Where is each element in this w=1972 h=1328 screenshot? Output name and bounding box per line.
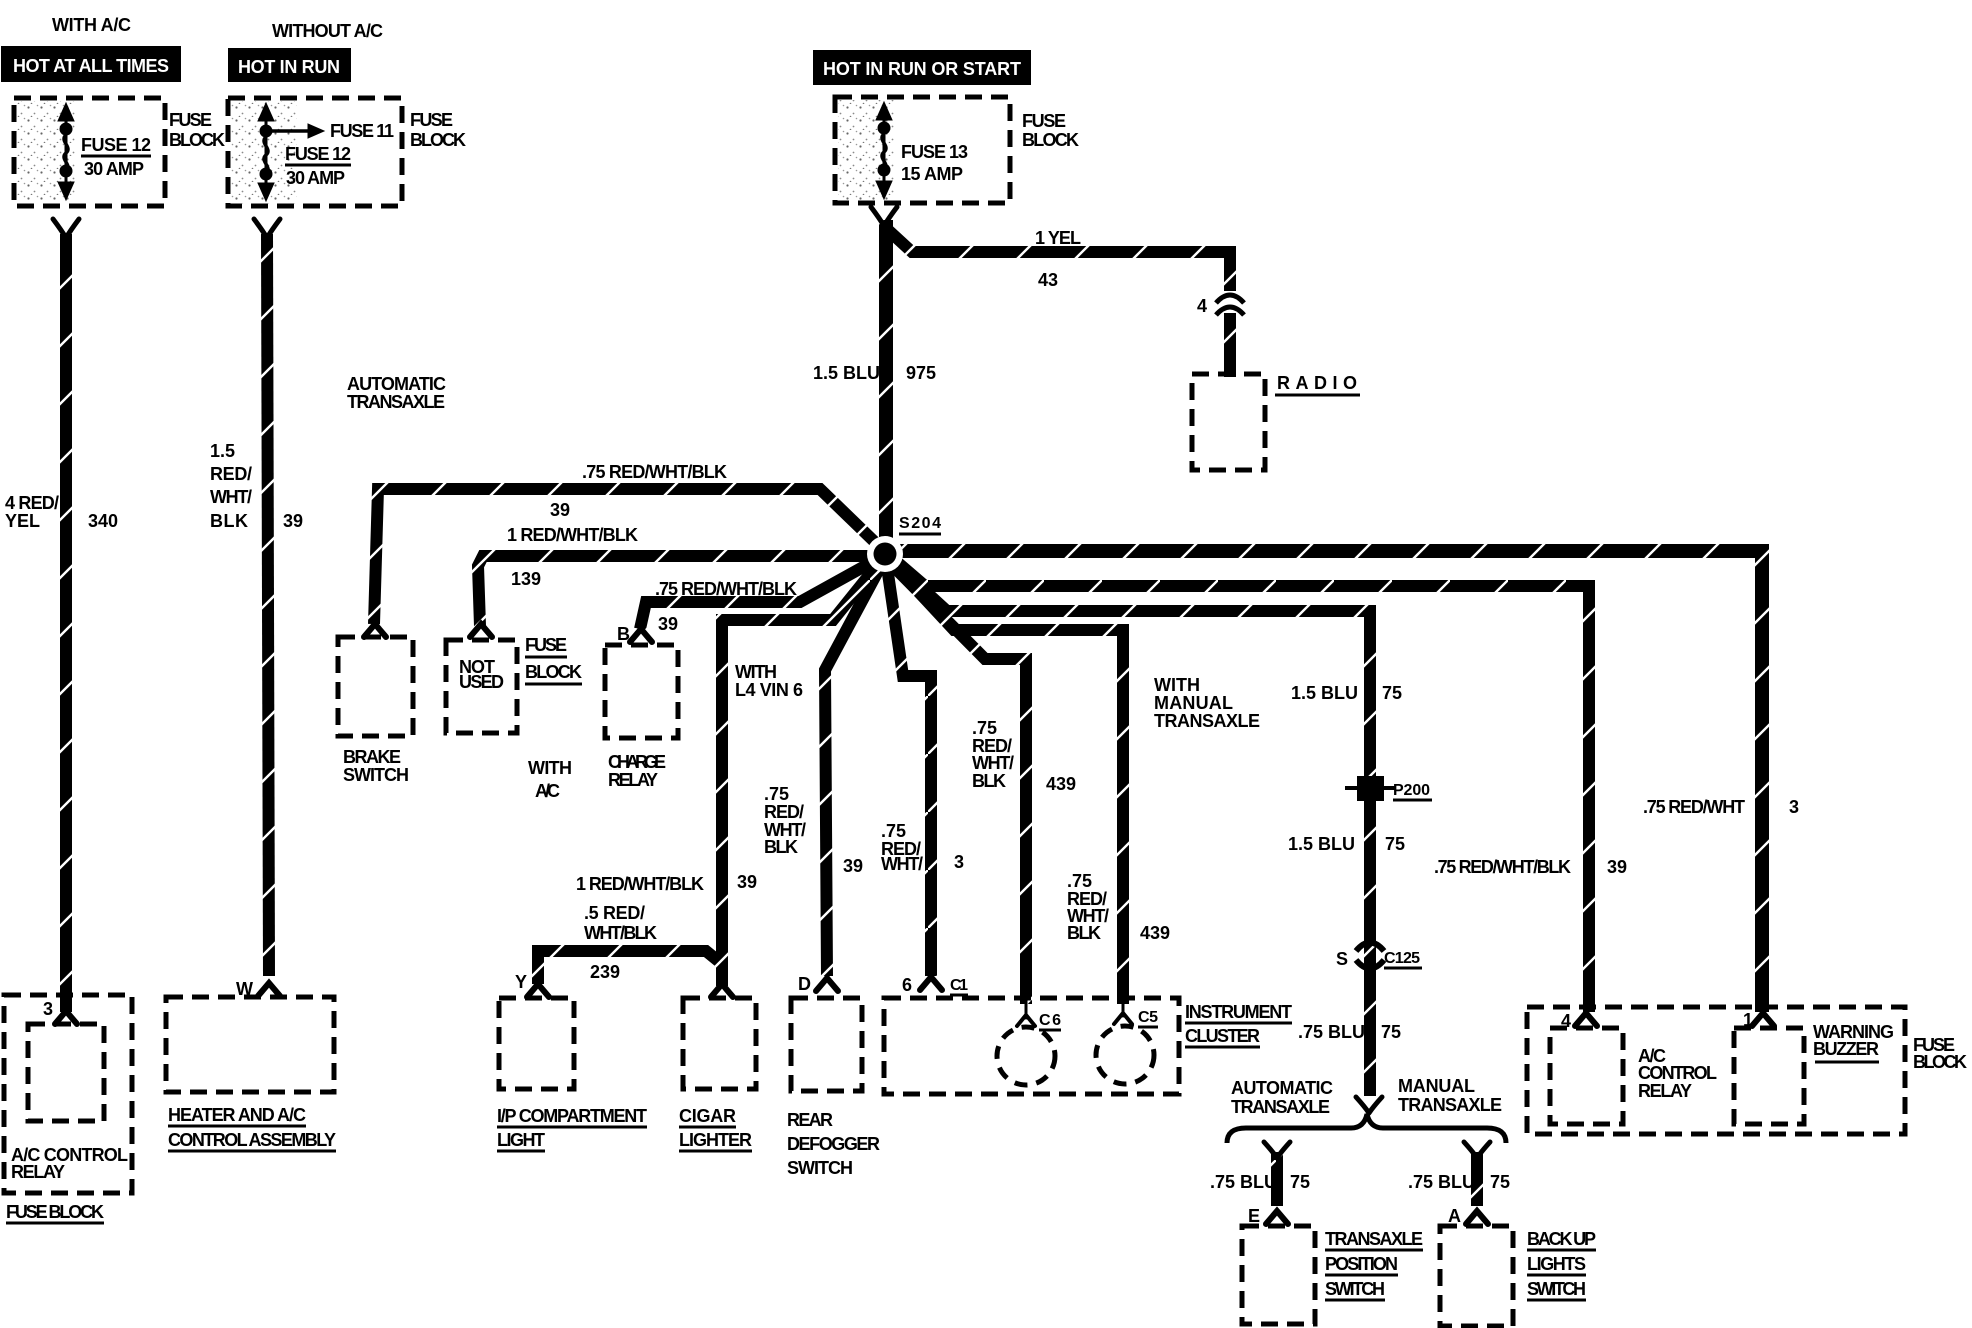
fuse block box bottom left [4, 995, 132, 1193]
svg-text:30 AMP: 30 AMP [84, 159, 144, 179]
svg-text:39: 39 [843, 856, 863, 876]
svg-text:39: 39 [658, 614, 678, 634]
inline connector 4 on radio wire [1216, 295, 1244, 315]
terminal arrow A/C control relay pin 3 [55, 1011, 77, 1024]
svg-text:USED: USED [459, 672, 504, 692]
svg-text:C6: C6 [1039, 1012, 1061, 1029]
terminal arrow brake switch [364, 624, 386, 637]
svg-text:CLUSTER: CLUSTER [1185, 1026, 1260, 1046]
header HOT IN RUN OR START [813, 50, 1031, 85]
svg-text:1: 1 [1743, 1010, 1753, 1030]
terminal arrow not used [470, 624, 492, 637]
svg-text:TRANSAXLE: TRANSAXLE [1398, 1095, 1502, 1115]
fuse block box fuse 13 [835, 97, 1010, 203]
svg-text:BLOCK: BLOCK [1022, 130, 1079, 150]
wire 1.5 RED/WHT/BLK fuse12 to heater W [267, 234, 269, 976]
terminal arrow heater pin W [258, 983, 280, 996]
svg-text:HOT IN RUN: HOT IN RUN [238, 57, 340, 77]
svg-text:RADIO: RADIO [1277, 373, 1357, 393]
fuse block box with A/C [14, 98, 165, 206]
svg-text:WHT/: WHT/ [972, 753, 1014, 773]
svg-text:.75 RED/WHT/BLK: .75 RED/WHT/BLK [582, 462, 727, 482]
svg-text:DEFOGGER: DEFOGGER [787, 1134, 880, 1154]
back up lights switch box [1440, 1226, 1513, 1326]
radio box [1192, 374, 1265, 470]
svg-text:B: B [617, 624, 630, 644]
svg-text:.75: .75 [881, 821, 906, 841]
svg-text:75: 75 [1381, 1022, 1401, 1042]
svg-text:INSTRUMENT: INSTRUMENT [1185, 1002, 1292, 1022]
wire 4 RED/YEL fuse12 to A/C control relay [60, 234, 72, 1012]
svg-text:BLK: BLK [1067, 923, 1101, 943]
terminal arrow instrument cluster pin 6 C1 [920, 977, 942, 990]
terminal arrow charge relay pin B [630, 629, 652, 642]
svg-text:39: 39 [737, 872, 757, 892]
svg-text:TRANSAXLE: TRANSAXLE [1231, 1097, 1330, 1117]
svg-text:75: 75 [1290, 1172, 1310, 1192]
svg-text:FUSE: FUSE [525, 635, 567, 655]
wire .75 RED/WHT/BLK 439 run to instrument cluster C5 [888, 559, 1123, 1004]
svg-text:RELAY: RELAY [1638, 1081, 1692, 1101]
svg-text:S: S [1336, 949, 1348, 969]
svg-text:3: 3 [43, 999, 53, 1019]
svg-text:BLOCK: BLOCK [525, 662, 582, 682]
svg-text:39: 39 [1607, 857, 1627, 877]
svg-text:WITHOUT A/C: WITHOUT A/C [272, 21, 383, 41]
svg-text:FUSE: FUSE [410, 110, 453, 130]
svg-text:15 AMP: 15 AMP [901, 164, 963, 184]
wire .75 RED/WHT top run to warning buzzer terminal 1 [891, 551, 1762, 1012]
svg-text:BRAKE: BRAKE [343, 747, 401, 767]
svg-text:Y: Y [515, 972, 527, 992]
terminal arrow rear defogger pin D [816, 978, 838, 991]
cluster arrow C5 [1122, 1000, 1125, 1016]
wire .5 RED/WHT/BLK 239 branch to I/P compartment light Y [538, 951, 722, 984]
fuse element fuse 12 with A/C [58, 103, 74, 200]
svg-text:139: 139 [511, 569, 541, 589]
wire .75 RED/WHT/BLK 39 to charge relay B [640, 556, 883, 629]
svg-text:.75: .75 [1067, 871, 1092, 891]
svg-text:TRANSAXLE: TRANSAXLE [1154, 711, 1260, 731]
svg-text:D: D [798, 974, 811, 994]
svg-text:A/C: A/C [535, 781, 560, 801]
svg-text:S204: S204 [899, 515, 941, 532]
svg-text:.75: .75 [764, 784, 789, 804]
svg-text:1.5 BLU: 1.5 BLU [1288, 834, 1355, 854]
svg-text:RELAY: RELAY [608, 770, 658, 790]
svg-text:FUSE: FUSE [169, 110, 212, 130]
svg-text:A: A [1448, 1206, 1461, 1226]
svg-text:MANUAL: MANUAL [1398, 1076, 1475, 1096]
svg-text:LIGHTER: LIGHTER [679, 1130, 752, 1150]
svg-text:WHT/BLK: WHT/BLK [584, 923, 657, 943]
wire .75 RED/WHT/BLK 39 to cigar lighter [722, 558, 883, 986]
svg-text:SWITCH: SWITCH [1527, 1279, 1586, 1299]
svg-text:BLK: BLK [764, 837, 798, 857]
svg-text:BLK: BLK [210, 511, 248, 531]
svg-text:AUTOMATIC: AUTOMATIC [1231, 1078, 1333, 1098]
svg-text:FUSE 12: FUSE 12 [285, 144, 351, 164]
svg-text:.75 BLU: .75 BLU [1210, 1172, 1277, 1192]
svg-text:BLOCK: BLOCK [410, 130, 466, 150]
svg-text:BACK UP: BACK UP [1527, 1229, 1596, 1249]
wire .75 BLU 75 manual transaxle branch [1471, 1152, 1483, 1206]
svg-text:SWITCH: SWITCH [343, 765, 409, 785]
fuse element fuse 12 without A/C with arrow to fuse 11 [258, 103, 324, 201]
wire 1.5 BLU run to P200 and C125 [888, 557, 1370, 1096]
svg-text:CONTROL ASSEMBLY: CONTROL ASSEMBLY [168, 1130, 336, 1150]
svg-text:RED/: RED/ [764, 802, 804, 822]
wire .75 RED/WHT/BLK run to A/C control relay terminal 4 [889, 555, 1589, 1012]
connector hook below fuse 13 [871, 207, 897, 226]
svg-text:.75 BLU: .75 BLU [1408, 1172, 1475, 1192]
svg-text:HOT AT ALL TIMES: HOT AT ALL TIMES [13, 56, 169, 76]
svg-text:3: 3 [1789, 797, 1799, 817]
cigar lighter box [683, 998, 756, 1089]
cluster arrow C6 [1025, 1000, 1028, 1018]
svg-text:1.5: 1.5 [210, 441, 235, 461]
terminal arrow I/P compartment light pin Y [527, 984, 549, 997]
svg-text:43: 43 [1038, 270, 1058, 290]
svg-text:C5: C5 [1138, 1009, 1158, 1026]
svg-text:BUZZER: BUZZER [1813, 1039, 1879, 1059]
wire .75 RED/WHT/BLK 39 to rear defogger switch D [825, 560, 884, 976]
svg-text:.75 RED/WHT: .75 RED/WHT [1643, 797, 1745, 817]
svg-text:439: 439 [1046, 774, 1076, 794]
svg-text:FUSE BLOCK: FUSE BLOCK [6, 1202, 104, 1222]
svg-text:SWITCH: SWITCH [1325, 1279, 1385, 1299]
svg-text:SWITCH: SWITCH [787, 1158, 853, 1178]
warning buzzer box [1734, 1028, 1804, 1124]
svg-text:CIGAR: CIGAR [679, 1106, 736, 1126]
svg-text:WITH: WITH [735, 662, 777, 682]
svg-text:POSITION: POSITION [1325, 1254, 1398, 1274]
fuse block box without A/C [228, 98, 402, 206]
instrument cluster box [884, 998, 1179, 1094]
svg-text:FUSE 13: FUSE 13 [901, 142, 968, 162]
brake switch box [338, 637, 413, 736]
svg-text:3: 3 [954, 852, 964, 872]
svg-text:.75 RED/WHT/BLK: .75 RED/WHT/BLK [655, 579, 797, 599]
svg-text:WITH: WITH [528, 758, 572, 778]
svg-text:WITH: WITH [1154, 675, 1200, 695]
svg-text:RED/: RED/ [210, 464, 252, 484]
svg-text:4 RED/: 4 RED/ [5, 493, 59, 513]
svg-text:FUSE 11: FUSE 11 [330, 121, 394, 141]
inline connector C125 [1356, 943, 1384, 969]
connector hook below fuse 12 without A/C [254, 219, 280, 238]
wire .75 RED/WHT 3 to instrument cluster C1 terminal 6 [886, 560, 931, 976]
svg-text:75: 75 [1382, 683, 1402, 703]
fuse element fuse 13 [876, 102, 892, 199]
svg-text:E: E [1248, 1206, 1260, 1226]
svg-text:WHT/: WHT/ [210, 487, 252, 507]
svg-text:HOT IN RUN OR START: HOT IN RUN OR START [823, 59, 1021, 79]
svg-text:P200: P200 [1393, 782, 1430, 799]
brace automatic/manual transaxle [1227, 1114, 1506, 1143]
svg-text:30 AMP: 30 AMP [286, 168, 345, 188]
svg-text:.5 RED/: .5 RED/ [584, 903, 645, 923]
svg-text:1 YEL: 1 YEL [1035, 228, 1081, 248]
svg-text:.75 BLU: .75 BLU [1298, 1022, 1365, 1042]
wire .75 BLU 75 automatic transaxle branch [1271, 1152, 1283, 1206]
svg-text:WITH A/C: WITH A/C [52, 15, 131, 35]
svg-text:L4 VIN 6: L4 VIN 6 [735, 680, 803, 700]
terminal arrow cigar lighter [711, 984, 733, 997]
A/C control relay box right [1550, 1028, 1623, 1124]
wire 1 YEL below inline connector 4 to radio [1224, 313, 1236, 377]
svg-text:LIGHTS: LIGHTS [1527, 1254, 1586, 1274]
I/P compartment light box [499, 998, 574, 1089]
svg-text:MANUAL: MANUAL [1154, 693, 1233, 713]
not used box [446, 640, 517, 733]
svg-text:TRANSAXLE: TRANSAXLE [1325, 1229, 1423, 1249]
svg-text:BLOCK: BLOCK [169, 130, 225, 150]
svg-text:REAR: REAR [787, 1110, 833, 1130]
svg-text:39: 39 [550, 500, 570, 520]
fuse block box right [1527, 1007, 1905, 1134]
header HOT IN RUN [228, 48, 351, 82]
svg-text:6: 6 [902, 975, 912, 995]
terminal arrow back up lights switch pin A [1466, 1211, 1488, 1224]
inline connector P200 [1357, 776, 1384, 801]
wire .75 RED/WHT/BLK 39 to brake switch [374, 489, 882, 624]
svg-text:39: 39 [283, 511, 303, 531]
svg-text:HEATER AND A/C: HEATER AND A/C [168, 1105, 306, 1125]
terminal arrow warning buzzer pin 1 [1752, 1013, 1774, 1026]
lamp circle C6 [997, 1027, 1055, 1085]
wire 1 YEL branch to radio [887, 229, 1230, 291]
charge relay box [605, 645, 678, 738]
svg-text:AUTOMATIC: AUTOMATIC [347, 374, 446, 394]
svg-text:239: 239 [590, 962, 620, 982]
terminal arrow transaxle position switch pin E [1266, 1211, 1288, 1224]
svg-text:75: 75 [1490, 1172, 1510, 1192]
svg-text:FUSE 12: FUSE 12 [81, 135, 151, 155]
svg-text:LIGHT: LIGHT [497, 1130, 545, 1150]
svg-text:RELAY: RELAY [11, 1162, 65, 1182]
svg-text:1.5 BLU: 1.5 BLU [1291, 683, 1358, 703]
lamp circle C5 [1096, 1026, 1154, 1084]
svg-text:CHARGE: CHARGE [608, 752, 666, 772]
svg-text:C1: C1 [950, 977, 968, 994]
transaxle position switch box [1242, 1226, 1315, 1324]
svg-text:TRANSAXLE: TRANSAXLE [347, 392, 445, 412]
stipple texture in fuse block boxes [17, 101, 75, 203]
svg-text:75: 75 [1385, 834, 1405, 854]
svg-text:W: W [236, 979, 253, 999]
svg-text:WHT/: WHT/ [881, 854, 923, 874]
svg-text:.75 RED/WHT/BLK: .75 RED/WHT/BLK [1434, 857, 1571, 877]
header HOT AT ALL TIMES [1, 46, 181, 82]
svg-text:BLK: BLK [972, 771, 1006, 791]
svg-text:340: 340 [88, 511, 118, 531]
svg-text:FUSE: FUSE [1022, 111, 1066, 131]
svg-text:YEL: YEL [5, 511, 40, 531]
svg-text:I/P COMPARTMENT: I/P COMPARTMENT [497, 1106, 647, 1126]
svg-text:1 RED/WHT/BLK: 1 RED/WHT/BLK [507, 525, 638, 545]
terminal arrow A/C control relay pin 4 [1575, 1013, 1597, 1026]
heater and A/C control assembly box [166, 997, 334, 1092]
wire .75 RED/WHT/BLK 439 run to instrument cluster C6 [887, 560, 1026, 1004]
svg-text:1 RED/WHT/BLK: 1 RED/WHT/BLK [576, 874, 704, 894]
svg-text:4: 4 [1561, 1011, 1571, 1031]
connector hook below fuse 12 with A/C [53, 219, 79, 238]
svg-text:C125: C125 [1384, 950, 1420, 967]
svg-text:4: 4 [1197, 296, 1207, 316]
splice S204 [867, 536, 903, 572]
svg-text:1.5 BLU: 1.5 BLU [813, 363, 880, 383]
svg-text:975: 975 [906, 363, 936, 383]
wire 1.5 BLU fuse13 to splice S204 [879, 220, 893, 546]
connector hook top of automatic transaxle branch [1264, 1142, 1290, 1158]
svg-text:439: 439 [1140, 923, 1170, 943]
svg-text:CONTROL: CONTROL [1638, 1063, 1717, 1083]
wire 1 RED/WHT/BLK 139 to not used cavity [478, 556, 877, 626]
rear defogger switch box [791, 998, 862, 1091]
A/C control relay box bottom left [28, 1024, 104, 1121]
svg-text:BLOCK: BLOCK [1913, 1052, 1967, 1072]
svg-text:.75: .75 [972, 718, 997, 738]
hook end of 1.5 BLU wire above brace [1356, 1097, 1382, 1113]
connector hook top of manual transaxle branch [1464, 1142, 1490, 1158]
